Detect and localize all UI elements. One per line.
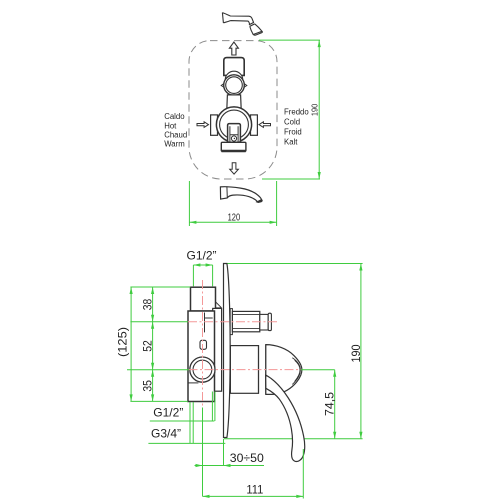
svg-text:Hot: Hot (164, 121, 177, 130)
flow arrow left (197, 122, 209, 128)
green lower centerline right + dim 74,5 (301, 370, 335, 439)
svg-text:Freddo: Freddo (284, 107, 309, 116)
svg-text:74,5: 74,5 (322, 392, 336, 416)
dim 111 (203, 449, 304, 499)
svg-text:Kalt: Kalt (284, 138, 298, 147)
label Caldo Hot Chaud Warm (164, 112, 187, 148)
small window detail (200, 340, 207, 349)
green centerline extension (202, 408, 204, 497)
dim 120 (top view) (189, 181, 276, 226)
top pipe (shower outlet) (191, 287, 216, 311)
valve neck (227, 95, 242, 112)
label Freddo Cold Froid Kalt (284, 107, 309, 146)
shower head (222, 13, 262, 36)
svg-text:Chaud: Chaud (164, 130, 187, 139)
svg-text:120: 120 (228, 213, 241, 224)
dim 190 (side view) (228, 264, 363, 439)
svg-text:G1/2”: G1/2” (153, 406, 183, 420)
tub spout (220, 186, 262, 202)
side port left (211, 115, 218, 135)
svg-text:190: 190 (310, 103, 319, 116)
wall plate outline (dashed) (189, 41, 277, 179)
handle hub (230, 345, 265, 395)
leader G1/2 bottom (150, 392, 215, 422)
main valve circles (216, 107, 251, 142)
step block (213, 308, 222, 391)
svg-text:Warm: Warm (164, 140, 185, 149)
flow arrow right (259, 122, 271, 128)
pipe chamfer detail (216, 302, 222, 308)
svg-text:52: 52 (140, 340, 154, 352)
dim G1/2 top (193, 265, 212, 286)
dim 190 (top view) (259, 40, 320, 179)
main body (188, 311, 215, 402)
dim 190 bottom reference line (224, 438, 363, 440)
top port (224, 58, 244, 76)
svg-text:G1/2”: G1/2” (187, 249, 217, 263)
svg-text:30÷50: 30÷50 (230, 451, 264, 465)
svg-text:Cold: Cold (284, 118, 300, 127)
svg-text:190: 190 (349, 344, 363, 362)
handle stem (228, 124, 241, 143)
svg-text:38: 38 (140, 298, 154, 310)
red centerline vertical (202, 280, 204, 408)
bottom port (221, 142, 246, 151)
wall plate (side) (224, 264, 231, 438)
dim (125) (130, 287, 132, 401)
svg-text:35: 35 (140, 380, 154, 392)
dome inner arcs (292, 358, 300, 385)
diverter knob (221, 71, 247, 95)
inlet circles (190, 357, 215, 382)
svg-text:(125): (125) (115, 327, 129, 357)
up arrow (229, 42, 238, 55)
svg-text:111: 111 (246, 482, 263, 496)
side port right (251, 115, 258, 135)
handle dome (266, 345, 302, 395)
down arrow (230, 163, 239, 174)
cartridge lines (205, 313, 213, 333)
body step line (188, 382, 198, 384)
red centerline upper (188, 321, 280, 323)
svg-text:Froid: Froid (284, 128, 302, 137)
dim 38 52 35 line (152, 287, 154, 401)
diverter stem (230, 309, 271, 335)
red centerline lower (189, 369, 302, 371)
svg-text:G3/4”: G3/4” (151, 427, 181, 441)
svg-text:Caldo: Caldo (164, 112, 185, 121)
dim 30÷50 (195, 439, 265, 466)
leader G3/4 bottom (148, 402, 225, 443)
reference lines left (127, 287, 190, 401)
handle lever (266, 375, 305, 462)
